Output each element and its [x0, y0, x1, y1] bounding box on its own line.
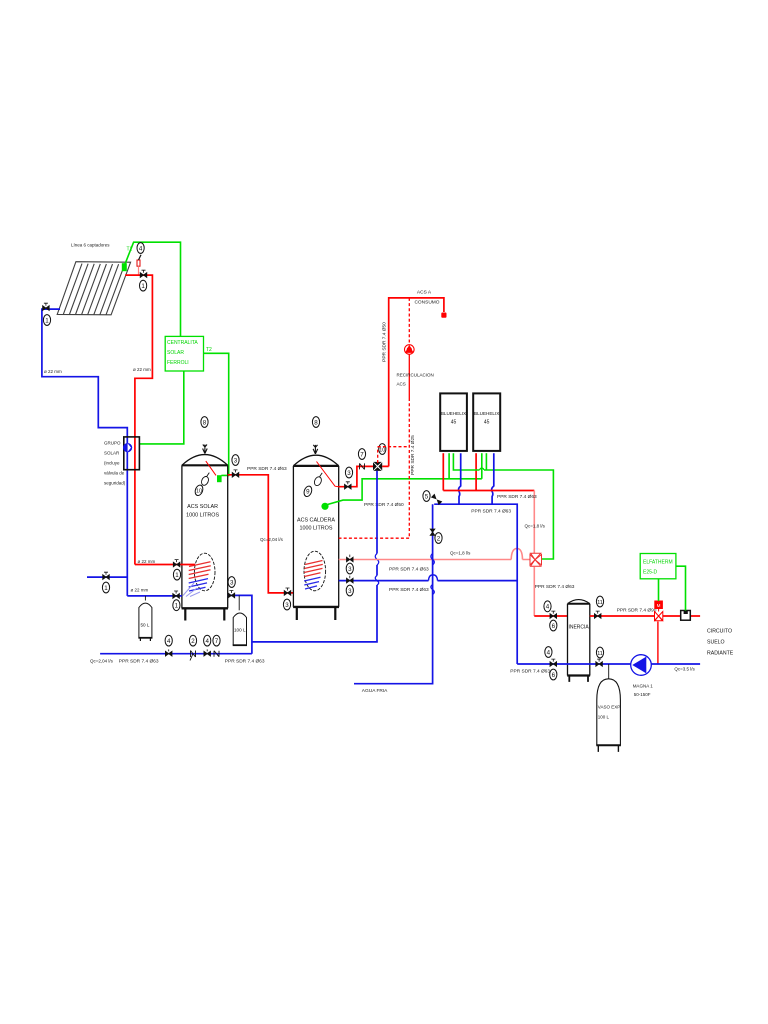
boiler U1 BLUEHELIX 45	[440, 393, 467, 451]
angle valve blue header	[431, 494, 442, 505]
wire blue from cross valve down	[252, 471, 377, 642]
grupo solar box	[124, 437, 140, 470]
vent arrow tank2	[313, 445, 318, 454]
node circled 11	[596, 647, 603, 658]
svg-text:3: 3	[285, 602, 289, 609]
wire blue bottom manifold	[100, 653, 252, 655]
node circled 8	[312, 417, 319, 428]
svg-text:VASO EXP: VASO EXP	[598, 705, 620, 710]
node circled 10 tank1	[194, 484, 204, 497]
ELFATHERM box	[640, 554, 676, 579]
svg-text:10: 10	[196, 489, 202, 495]
node circled 6	[550, 669, 557, 680]
valve blue tank1 inlet	[173, 591, 180, 598]
wire green boiler2 sensor drop	[481, 453, 483, 479]
node circled 2	[189, 635, 196, 646]
svg-text:PPR SDR 7.4 Ø63: PPR SDR 7.4 Ø63	[389, 587, 429, 593]
node circled 4	[165, 635, 172, 646]
SECTION: solar collector loop	[42, 242, 229, 596]
wire blue boiler header	[434, 504, 517, 664]
expansion vessel VASO EXP 100L	[596, 664, 621, 752]
centralita solar ferroli box	[165, 336, 203, 371]
svg-text:CIRCUITO: CIRCUITO	[707, 629, 732, 635]
svg-text:7: 7	[360, 451, 364, 458]
wire red boiler header	[443, 490, 534, 492]
wire green T1 to centralita	[125, 242, 181, 336]
svg-text:50-150F: 50-150F	[634, 692, 651, 697]
svg-text:BLUEHELIX: BLUEHELIX	[474, 411, 499, 416]
svg-text:2: 2	[437, 535, 441, 542]
heat meter black box	[681, 611, 691, 621]
wire blue inercia bottom	[517, 663, 700, 665]
safety relief valve on collector out	[137, 260, 140, 266]
tank ACS CALDERA body	[293, 455, 339, 620]
svg-text:PPR SDR 7.4 Ø63: PPR SDR 7.4 Ø63	[535, 584, 575, 590]
valve blue coil	[347, 576, 354, 583]
svg-text:PPR SDR 7.4 Ø63: PPR SDR 7.4 Ø63	[497, 494, 537, 500]
thermometer symbol tank2	[313, 476, 323, 487]
wire green T2 to tank1 sensor	[204, 353, 229, 475]
svg-text:ACS SOLAR: ACS SOLAR	[187, 504, 218, 510]
wire red recirc branch to valve	[378, 447, 410, 463]
valve inercia red in	[550, 611, 557, 618]
svg-text:3: 3	[348, 566, 352, 573]
svg-text:5: 5	[425, 493, 429, 500]
wire red collector flow	[125, 275, 152, 564]
wire red recirc lower	[408, 354, 410, 398]
svg-text:1: 1	[104, 585, 108, 592]
svg-text:PPR SDR 7.4 Ø63: PPR SDR 7.4 Ø63	[225, 659, 265, 665]
node circled 6	[550, 620, 557, 631]
svg-text:50 L: 50 L	[141, 623, 150, 628]
node circled 1	[43, 315, 50, 326]
wire blue boiler2 drop	[492, 453, 494, 504]
node circled 9 tank2	[303, 485, 313, 498]
valve inercia blue out	[596, 659, 603, 666]
vent arrow tank1	[203, 445, 208, 454]
svg-text:RECIRCULACION: RECIRCULACION	[397, 373, 434, 378]
node circled 4	[544, 601, 551, 612]
sensor dot tank2	[321, 503, 328, 510]
wire blue agua fria	[354, 504, 433, 684]
pump recirculacion	[405, 345, 415, 355]
wire red recirc dashed upper	[408, 298, 410, 344]
node circled 3	[346, 563, 353, 574]
wire blue tank1 inlet	[127, 595, 182, 597]
wire red riser PPR50	[389, 298, 444, 467]
svg-text:E25-D: E25-D	[643, 570, 658, 576]
svg-text:3: 3	[348, 588, 352, 595]
svg-text:válvula de: válvula de	[104, 471, 125, 476]
svg-text:PPR SDR 7.4 Ø63: PPR SDR 7.4 Ø63	[119, 659, 159, 665]
svg-text:11: 11	[597, 600, 603, 606]
svg-text:4: 4	[547, 649, 551, 656]
wire green boiler1 sensor drop	[448, 453, 450, 479]
wire red inercia to suelo	[590, 615, 700, 617]
svg-text:8: 8	[203, 419, 207, 426]
svg-text:Qc=1,8 l/s: Qc=1,8 l/s	[450, 551, 471, 556]
svg-text:ø 22 mm: ø 22 mm	[44, 369, 62, 374]
valve pink coil	[347, 555, 354, 562]
pipe bump pink over blue	[511, 549, 522, 560]
wire green boiler2 control drop	[485, 453, 487, 470]
wire blue cold water inlet	[87, 576, 127, 578]
svg-text:3: 3	[347, 470, 351, 477]
node circled 3	[345, 467, 352, 478]
valve agua fria riser	[430, 529, 435, 535]
sensor square tank1	[217, 475, 222, 482]
svg-text:SOLAR: SOLAR	[104, 451, 120, 456]
cross valve black	[373, 462, 382, 471]
svg-text:PPR SDR 7.4 Ø50: PPR SDR 7.4 Ø50	[364, 502, 404, 508]
wire green elfatherm to meter	[676, 566, 686, 610]
svg-text:45: 45	[451, 420, 457, 426]
crossing wiggles agua fria riser	[431, 554, 435, 595]
svg-text:SOLAR: SOLAR	[167, 350, 184, 356]
wire red boiler2 drop	[475, 453, 477, 490]
node circled 4	[137, 243, 144, 254]
svg-text:ELFATHERM: ELFATHERM	[643, 560, 673, 566]
svg-text:3: 3	[230, 579, 234, 586]
coil heat exchanger tank2	[304, 551, 326, 591]
svg-text:100 L: 100 L	[234, 628, 246, 633]
svg-text:INERCIA: INERCIA	[568, 625, 589, 631]
svg-text:1000 LITROS: 1000 LITROS	[300, 526, 333, 532]
node circled 2	[435, 533, 442, 544]
valve tank1 hot out	[232, 470, 239, 477]
svg-text:MAGNA 1: MAGNA 1	[633, 684, 654, 689]
svg-text:ø 22 mm: ø 22 mm	[133, 367, 151, 372]
svg-text:45: 45	[484, 420, 490, 426]
wire blue caldera coil return	[339, 580, 518, 582]
svg-text:6: 6	[552, 672, 556, 679]
svg-text:Qc=2,04 l/s: Qc=2,04 l/s	[90, 659, 114, 664]
svg-text:(incluye: (incluye	[104, 461, 120, 466]
svg-text:11: 11	[597, 651, 603, 657]
node circled 5	[423, 491, 430, 502]
svg-text:4: 4	[167, 638, 171, 645]
svg-text:T2: T2	[206, 347, 212, 353]
svg-text:ø 22 mm: ø 22 mm	[138, 559, 156, 564]
node circled 3	[283, 599, 290, 610]
pipe bump blue over riser	[429, 575, 438, 581]
svg-text:PPR SDR 7.4 Ø90: PPR SDR 7.4 Ø90	[617, 608, 657, 614]
svg-text:PPR SDR 7.4 Ø63: PPR SDR 7.4 Ø63	[389, 567, 429, 573]
pump grupo solar	[123, 443, 132, 452]
valve manifold A	[165, 649, 172, 656]
wire blue tank1 outlet right	[228, 595, 252, 653]
svg-text:RADIANTE: RADIANTE	[707, 651, 734, 657]
SECTION: tank1 ACS SOLAR	[87, 417, 293, 665]
wire blue boiler1 drop	[459, 453, 461, 504]
SECTION: boilers	[423, 393, 554, 664]
node circled 7	[358, 449, 365, 460]
svg-text:1: 1	[45, 317, 49, 324]
svg-text:6: 6	[552, 623, 556, 630]
SECTION: tank2 ACS CALDERA	[252, 290, 530, 695]
svg-text:PPR SDR 7.4 Ø25: PPR SDR 7.4 Ø25	[410, 435, 416, 475]
valve manifold B drain	[190, 651, 196, 661]
expansion vessel 50L	[138, 596, 152, 641]
svg-text:9: 9	[306, 489, 310, 496]
wire green sensor PPR50	[328, 479, 482, 505]
node circled 1	[140, 280, 147, 291]
valve tank1 outlet	[228, 591, 235, 598]
thermometer symbol tank1	[200, 475, 210, 486]
node circled 10	[379, 444, 386, 455]
node circled 3	[232, 455, 239, 466]
svg-text:PPR SDR 7.4 Ø63: PPR SDR 7.4 Ø63	[510, 669, 550, 675]
wire red tank1 hot out to caldera	[228, 475, 294, 593]
valve inercia red out	[594, 611, 601, 618]
sensor T1 square	[122, 263, 127, 271]
svg-text:SUELO: SUELO	[707, 640, 725, 646]
valve on collector red	[140, 270, 147, 277]
svg-text:Qc=3.5 l/s: Qc=3.5 l/s	[674, 667, 695, 672]
svg-text:ACS A: ACS A	[417, 290, 432, 296]
wire red valve drop to pump line	[657, 622, 659, 665]
svg-text:PPR SDR 7.4 Ø50: PPR SDR 7.4 Ø50	[381, 322, 387, 362]
node circled 3	[228, 577, 235, 588]
svg-text:1000 LITROS: 1000 LITROS	[186, 512, 219, 518]
wire green centralita to grupo solar	[139, 371, 183, 444]
svg-text:FERROLI: FERROLI	[167, 360, 189, 366]
svg-text:4: 4	[205, 638, 209, 645]
svg-text:seguridad): seguridad)	[104, 481, 126, 486]
node circled 11	[596, 596, 603, 607]
svg-text:Qc=2,04 l/s: Qc=2,04 l/s	[260, 537, 284, 542]
node circled 4	[204, 635, 211, 646]
crossing wiggles blue vertical	[375, 554, 379, 586]
wire green elfatherm to M valve	[658, 579, 660, 601]
node circled 8	[201, 417, 208, 428]
node circled 3	[346, 585, 353, 596]
node circled 1	[173, 569, 180, 580]
wire green control bus	[453, 453, 553, 559]
wire red caldera hot out	[338, 466, 389, 486]
check valve N	[360, 463, 365, 469]
pump MAGNA-1	[631, 655, 652, 676]
tank INERCIA	[567, 600, 590, 682]
node circled 1	[102, 582, 109, 593]
node circled 4	[545, 647, 552, 658]
motor valve M	[655, 601, 663, 621]
wire pink drop to inercia	[533, 567, 535, 617]
boiler U2 BLUEHELIX 45	[473, 393, 500, 451]
wire pink caldera coil supply	[339, 559, 531, 561]
red diagonal tank2 top	[317, 462, 339, 487]
svg-text:1: 1	[175, 572, 179, 579]
svg-text:ACS CALDERA: ACS CALDERA	[297, 518, 335, 524]
wire red boiler1 drop	[442, 453, 444, 490]
valve cold inlet	[103, 572, 110, 579]
green bump over drop	[480, 468, 484, 470]
svg-text:2: 2	[191, 638, 195, 645]
valve manifold C	[204, 649, 211, 656]
svg-text:PPR SDR 7.4 Ø63: PPR SDR 7.4 Ø63	[247, 466, 287, 472]
valve manifold D check	[214, 651, 219, 657]
solar collector panel (Línea 6 captadores)	[57, 262, 130, 315]
coil heat exchanger tank1	[194, 553, 215, 591]
svg-text:4: 4	[546, 604, 550, 611]
node circled 1	[173, 600, 180, 611]
consumo arrow	[441, 313, 446, 318]
SECTION: right circuit	[510, 553, 733, 752]
svg-text:CENTRALITA: CENTRALITA	[167, 340, 198, 346]
wire blue collector return	[42, 309, 127, 596]
svg-text:ø 22 mm: ø 22 mm	[131, 588, 149, 593]
valve red tank1 inlet	[173, 560, 180, 567]
svg-text:ACS: ACS	[397, 382, 406, 387]
svg-text:10: 10	[379, 447, 385, 453]
valve caldera hot out	[345, 482, 352, 489]
valve inercia blue in	[550, 659, 557, 666]
tank ACS SOLAR body	[182, 455, 228, 621]
valve caldera red inlet	[284, 588, 291, 595]
svg-text:GRUPO: GRUPO	[104, 441, 121, 446]
svg-text:Línea 6 captadores: Línea 6 captadores	[71, 243, 110, 248]
wire red tank1 inlet	[135, 564, 195, 566]
mixing valve 4-way	[530, 553, 542, 566]
svg-text:Qc=1,8 l/s: Qc=1,8 l/s	[525, 524, 546, 529]
svg-text:3: 3	[234, 457, 238, 464]
svg-text:1: 1	[141, 283, 145, 290]
svg-text:PPR SDR 7.4 Ø63: PPR SDR 7.4 Ø63	[471, 509, 511, 515]
svg-text:7: 7	[215, 638, 219, 645]
svg-text:CONSUMO: CONSUMO	[414, 300, 439, 306]
svg-text:AGUA FRIA: AGUA FRIA	[362, 688, 388, 694]
svg-text:BLUEHELIX: BLUEHELIX	[441, 411, 466, 416]
valve on collector blue	[43, 303, 50, 310]
svg-text:8: 8	[314, 419, 318, 426]
expansion vessel 100L	[233, 595, 247, 645]
svg-text:M: M	[657, 603, 661, 608]
node circled 7	[213, 635, 220, 646]
svg-text:100 L: 100 L	[598, 715, 610, 720]
svg-text:1: 1	[175, 603, 179, 610]
svg-text:4: 4	[139, 245, 143, 252]
